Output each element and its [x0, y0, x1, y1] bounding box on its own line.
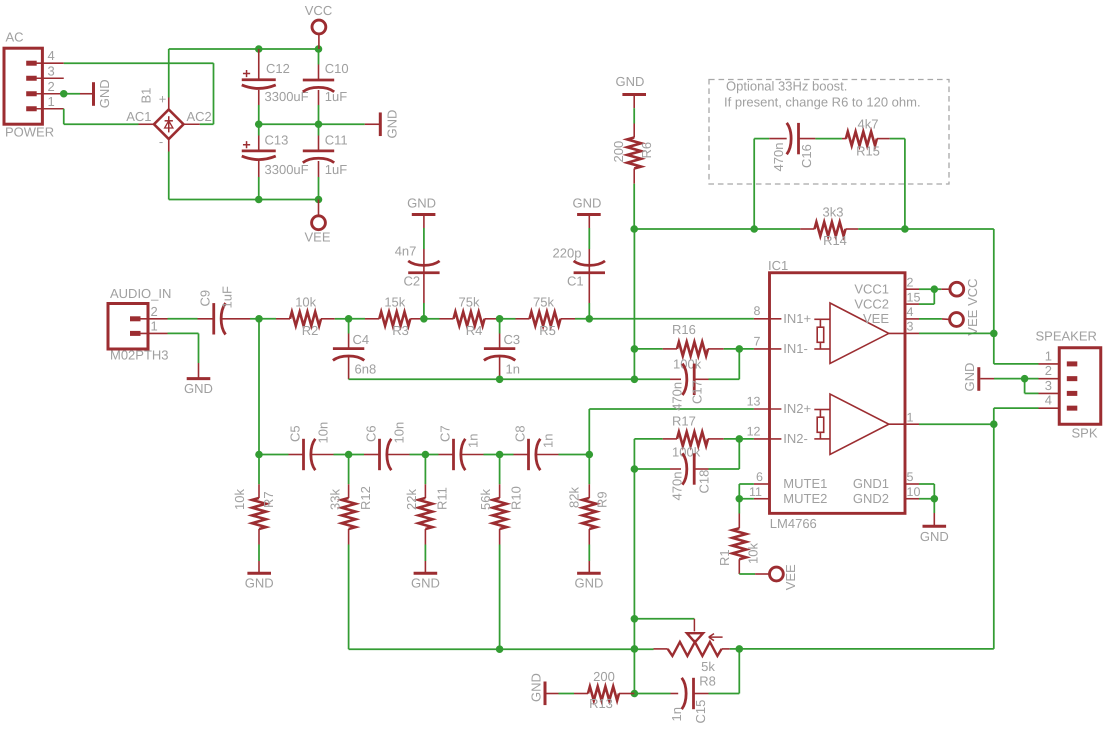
svg-text:4: 4 [1045, 393, 1052, 408]
node R14 rail left [630, 225, 638, 233]
svg-text:75k: 75k [459, 295, 480, 310]
potentiometer R8 5k [654, 619, 730, 689]
SPEAKER pin 4 [1039, 393, 1078, 409]
svg-text:3: 3 [1045, 378, 1052, 393]
resistor R14 3k3 [800, 205, 858, 249]
svg-text:3300uF: 3300uF [265, 89, 309, 104]
capacitor C1 220p [553, 246, 606, 319]
svg-text:R16: R16 [672, 322, 696, 337]
wire to speaker pin3 [1025, 379, 1039, 394]
svg-text:VCC1: VCC1 [854, 281, 889, 296]
SPEAKER pin 3 [1039, 378, 1078, 394]
mid rail wire and dots [255, 120, 365, 128]
svg-text:GND: GND [184, 381, 213, 396]
wire input junction down [258, 319, 260, 455]
svg-text:C11: C11 [325, 132, 348, 147]
ground above C2 [407, 196, 436, 249]
svg-text:1uF: 1uF [220, 286, 235, 308]
svg-text:75k: 75k [533, 295, 554, 310]
svg-text:IC1: IC1 [768, 258, 788, 273]
svg-text:1uF: 1uF [325, 162, 347, 177]
svg-text:VCC: VCC [305, 3, 332, 18]
svg-text:12: 12 [747, 424, 761, 438]
supply symbol VCC right [941, 278, 980, 305]
wire mute pins [736, 484, 754, 514]
svg-text:5k: 5k [701, 659, 715, 674]
dashed note box [709, 80, 949, 185]
resistor R4 75k [424, 295, 500, 339]
svg-text:R9: R9 [595, 491, 610, 508]
svg-text:VCC: VCC [965, 278, 980, 305]
svg-text:R10: R10 [509, 486, 524, 510]
wire C17 left lead [634, 378, 670, 380]
resistor R13 200 [559, 669, 635, 711]
svg-text:82k: 82k [567, 487, 582, 508]
wire to IN1+ [575, 318, 754, 320]
svg-text:R13: R13 [589, 696, 613, 711]
svg-text:C12: C12 [266, 61, 290, 76]
svg-text:GND: GND [407, 196, 436, 211]
ground below IC1 [920, 513, 949, 544]
wire C16 left leg [754, 139, 769, 229]
capacitor C10 1uF [303, 49, 349, 124]
svg-text:22k: 22k [404, 489, 419, 510]
svg-text:GND: GND [573, 196, 602, 211]
ground below R11 [411, 561, 440, 591]
svg-text:1uF: 1uF [325, 89, 347, 104]
svg-text:4n7: 4n7 [395, 243, 417, 258]
node R17 row right [736, 435, 744, 443]
svg-text:1: 1 [1045, 348, 1052, 363]
resistor R2 10k [259, 295, 349, 339]
svg-text:R15: R15 [856, 144, 880, 159]
resistor R10 56k [478, 455, 524, 545]
svg-text:1n: 1n [541, 434, 556, 448]
node op1 output [990, 330, 998, 338]
resistor R15 4k7 [842, 117, 905, 159]
svg-text:C18: C18 [696, 470, 711, 494]
svg-text:GND: GND [97, 79, 112, 108]
connector SPEAKER [1036, 328, 1101, 440]
node R16 row left [631, 345, 639, 353]
POWER pin 2 [26, 79, 64, 94]
svg-text:GND: GND [385, 110, 400, 139]
resistor R5 75k [500, 295, 575, 339]
svg-text:470n: 470n [771, 143, 786, 172]
svg-text:4k7: 4k7 [858, 117, 879, 132]
POWER pin 1 [26, 94, 64, 109]
svg-text:GND2: GND2 [853, 491, 889, 506]
svg-text:GND1: GND1 [853, 476, 889, 491]
svg-text:AUDIO_IN: AUDIO_IN [110, 286, 171, 301]
svg-text:R3: R3 [392, 323, 409, 338]
capacitor C4 6n8 [333, 319, 376, 380]
svg-text:15: 15 [907, 290, 921, 304]
node input junction [255, 315, 263, 323]
IC1 pin 8 IN1+ [754, 304, 812, 326]
svg-text:10n: 10n [316, 422, 331, 444]
svg-text:C8: C8 [513, 425, 528, 442]
svg-text:R7: R7 [261, 491, 276, 508]
wire R17 left leg down [633, 439, 635, 469]
svg-text:AC: AC [6, 30, 24, 45]
wire R14 rail [634, 228, 994, 230]
svg-text:R11: R11 [435, 487, 450, 510]
capacitor C2 4n7 [395, 243, 440, 318]
node C4 junction [345, 315, 353, 323]
node VEE rail junctions [255, 196, 322, 204]
supply symbol VEE [304, 200, 330, 245]
wire POWER pin1 to AC1 [64, 109, 139, 125]
svg-text:100k: 100k [672, 445, 701, 460]
svg-text:C17: C17 [689, 380, 704, 404]
svg-text:POWER: POWER [5, 125, 54, 140]
svg-text:C10: C10 [325, 61, 349, 76]
svg-text:6n8: 6n8 [355, 362, 377, 377]
IC1 pin 11 MUTE2 [749, 485, 827, 506]
svg-text:3k3: 3k3 [823, 205, 844, 220]
wire rail R10 to pot [500, 648, 654, 650]
node R16 row right [736, 345, 744, 353]
wire op1 output to speaker pin1 [994, 333, 1039, 364]
resistor R12 33k [328, 455, 374, 545]
svg-text:100k: 100k [673, 356, 702, 371]
capacitor C7 1n [425, 425, 499, 470]
capacitor C3 1n [484, 319, 520, 380]
svg-text:C5: C5 [288, 425, 303, 442]
svg-text:IN1+: IN1+ [783, 311, 811, 326]
IC1 pin 5 GND1 [853, 470, 919, 491]
IC1 pin 1 OUT2 [905, 410, 919, 424]
capacitor C5 10n [259, 422, 349, 470]
svg-text:B1: B1 [139, 88, 154, 104]
wire R1 to VEE [739, 573, 755, 575]
wire 6n8 feedback rail [349, 376, 635, 384]
svg-text:R5: R5 [539, 323, 556, 338]
connector AUDIO_IN [108, 286, 171, 363]
wire C8 junction to IN2+ [589, 409, 754, 455]
svg-text:R1: R1 [717, 549, 732, 566]
svg-text:470n: 470n [669, 382, 684, 411]
svg-text:C13: C13 [265, 132, 289, 147]
svg-text:VEE: VEE [965, 309, 980, 335]
resistor R17 100k [634, 414, 754, 460]
svg-text:MUTE2: MUTE2 [783, 491, 827, 506]
wire R10 to bottom rail [496, 545, 504, 654]
svg-text:AC2: AC2 [187, 109, 212, 124]
svg-text:6: 6 [756, 470, 763, 484]
wire C15 up to pot right [738, 649, 740, 694]
resistor R9 82k [567, 455, 610, 562]
svg-text:R4: R4 [466, 323, 483, 338]
svg-text:C2: C2 [404, 273, 421, 288]
node C1 junction [586, 315, 594, 323]
wire wiper rail [631, 615, 695, 623]
capacitor C6 10n [349, 422, 426, 470]
ground above R6 [615, 74, 646, 124]
svg-text:4: 4 [907, 305, 914, 319]
capacitor C8 1n [500, 425, 590, 470]
svg-text:GND: GND [529, 673, 544, 702]
node C5 junctions [255, 451, 352, 459]
wire pin 4 to VEE [919, 318, 942, 320]
svg-text:33k: 33k [328, 489, 343, 510]
node C7 junction [496, 451, 504, 459]
svg-text:56k: 56k [478, 489, 493, 510]
svg-text:7: 7 [754, 334, 761, 348]
svg-text:10k: 10k [745, 543, 760, 564]
svg-text:3: 3 [48, 63, 55, 78]
svg-text:200: 200 [593, 669, 615, 684]
capacitor C13 3300uF [242, 124, 309, 199]
resistor R6 200 [611, 124, 654, 184]
wire gnd to speaker pin2 [994, 375, 1039, 383]
node C8 junction [586, 451, 594, 459]
wire pins 5/10 to ground [919, 484, 938, 513]
svg-text:GND: GND [245, 576, 274, 591]
svg-text:R2: R2 [302, 323, 319, 338]
capacitor C18 470n [634, 439, 739, 501]
IC1 pin 12 IN2- [747, 424, 808, 446]
ground at POWER pin2 [60, 79, 112, 108]
IC1 pin 6 MUTE1 [754, 470, 827, 491]
wire R12 to bottom rail [349, 545, 500, 650]
svg-text:220p: 220p [553, 246, 582, 261]
svg-text:1: 1 [907, 410, 914, 424]
svg-text:R14: R14 [823, 233, 847, 248]
SPEAKER pin 1 [1039, 348, 1078, 364]
svg-text:C3: C3 [504, 332, 521, 347]
connector POWER (AC input) [4, 30, 54, 140]
node C2 junction [420, 315, 428, 323]
node C6 junction [422, 451, 430, 459]
svg-text:13: 13 [747, 394, 761, 408]
IC1 pin 3 OUT1 [905, 320, 919, 334]
svg-text:GND: GND [920, 529, 949, 544]
AUDIO_IN pin 1 [130, 318, 168, 333]
supply symbol VCC [305, 3, 332, 49]
resistor R1 10k [717, 514, 761, 575]
svg-text:VCC2: VCC2 [854, 296, 889, 311]
wire vertical IN1- column [633, 229, 635, 379]
svg-text:Optional 33Hz boost.: Optional 33Hz boost. [726, 79, 847, 94]
wire R15 right leg [904, 139, 906, 229]
node VCC rail junctions [255, 45, 322, 53]
capacitor C16 470n [769, 123, 842, 172]
AUDIO_IN pin 2 [130, 304, 168, 319]
svg-text:C4: C4 [353, 332, 370, 347]
svg-text:R8: R8 [699, 673, 716, 688]
capacitor C17 470n [631, 349, 740, 411]
svg-text:C7: C7 [438, 425, 453, 442]
svg-text:10: 10 [907, 485, 921, 499]
IC1 pin 13 IN2+ [747, 394, 812, 416]
svg-text:AC1: AC1 [126, 109, 151, 124]
wire pin 3 to output node [919, 332, 994, 334]
svg-text:LM4766: LM4766 [770, 516, 817, 531]
note text line2 [724, 95, 921, 110]
svg-text:8: 8 [754, 304, 761, 318]
capacitor C9 1uF [168, 286, 260, 334]
svg-text:5: 5 [907, 470, 914, 484]
ground at R13 [529, 673, 559, 705]
wire B1 minus to VEE rail [169, 152, 319, 200]
svg-text:10k: 10k [232, 489, 247, 510]
IC1 pin 2 VCC1 [854, 275, 919, 296]
capacitor C12 3300uF [242, 49, 309, 124]
svg-text:If present, change R6 to 120 o: If present, change R6 to 120 ohm. [724, 95, 921, 110]
resistor R7 10k [232, 455, 276, 562]
svg-text:1: 1 [151, 318, 158, 333]
svg-text:C1: C1 [567, 273, 584, 288]
ground below AUDIO_IN [168, 333, 213, 395]
resistor R3 15k [349, 295, 424, 339]
ground at mid rail [365, 110, 400, 139]
svg-text:IN2+: IN2+ [783, 401, 811, 416]
POWER pin 3 [26, 63, 64, 78]
svg-text:C9: C9 [198, 290, 213, 307]
svg-text:2: 2 [48, 79, 55, 94]
resistor R11 22k [404, 455, 450, 562]
svg-text:M02PTH3: M02PTH3 [110, 348, 169, 363]
wire B1 plus to VCC rail [169, 49, 319, 98]
svg-text:+: + [159, 91, 167, 106]
svg-text:GND: GND [615, 74, 644, 89]
svg-text:GND: GND [411, 576, 440, 591]
SPEAKER pin 2 [1039, 363, 1078, 379]
POWER pin 4 [26, 48, 64, 63]
wire pins 2/15 to VCC [919, 285, 941, 304]
wire bottom rail segment [631, 619, 639, 698]
node pot right [730, 645, 994, 653]
node rail dots [750, 225, 908, 233]
svg-text:IN2-: IN2- [783, 431, 808, 446]
IC1 pin 7 IN1- [754, 334, 808, 356]
svg-text:10n: 10n [392, 422, 407, 444]
resistor R16 100k [634, 322, 754, 371]
capacitor C15 1n [634, 678, 739, 724]
svg-text:C15: C15 [693, 700, 708, 724]
svg-text:1: 1 [48, 94, 55, 109]
ground at speaker [962, 363, 994, 392]
node C3 junction [496, 315, 504, 323]
svg-text:3: 3 [907, 320, 914, 334]
svg-text:R12: R12 [358, 486, 373, 510]
supply symbol VEE right [942, 309, 980, 335]
svg-text:1n: 1n [466, 434, 481, 448]
svg-text:GND: GND [962, 363, 977, 392]
svg-text:VEE: VEE [783, 564, 798, 590]
wire POWER pin4 to AC2 [64, 63, 214, 124]
wire R6 down to R14 rail [633, 184, 635, 229]
node C18 row left [631, 465, 639, 473]
svg-text:MUTE1: MUTE1 [783, 476, 827, 491]
svg-text:IN1-: IN1- [783, 341, 808, 356]
wire op2 output to speaker pin4 [919, 408, 1039, 428]
svg-text:R17: R17 [672, 414, 696, 429]
bridge rectifier B1 [126, 88, 212, 152]
op-amp U1B triangle [814, 394, 905, 455]
svg-text:11: 11 [749, 485, 762, 499]
svg-text:2: 2 [907, 275, 914, 289]
svg-text:C6: C6 [364, 425, 379, 442]
wire R14 rail down to op1 output [993, 229, 995, 333]
IC1 pin 10 GND2 [853, 485, 921, 506]
svg-text:4: 4 [48, 48, 55, 63]
svg-text:3300uF: 3300uF [265, 162, 309, 177]
svg-text:470n: 470n [669, 472, 684, 501]
svg-text:-: - [159, 134, 163, 149]
svg-text:C16: C16 [799, 144, 814, 168]
ground below R9 [574, 561, 603, 591]
svg-text:15k: 15k [384, 295, 405, 310]
wire op2 output down to feedback [993, 424, 995, 649]
note text line1 [726, 79, 847, 94]
supply symbol VEE below R1 [755, 564, 798, 590]
ground above C1 [573, 196, 602, 249]
svg-text:200: 200 [611, 141, 626, 163]
IC1 pin 4 VEE [863, 305, 919, 326]
ground below R7 [245, 561, 274, 591]
op-amp U1A triangle [814, 303, 905, 364]
capacitor C11 1uF [303, 124, 348, 199]
svg-text:SPK: SPK [1072, 425, 1098, 440]
svg-text:1n: 1n [506, 362, 520, 377]
svg-text:GND: GND [574, 576, 603, 591]
IC1 pin 15 VCC2 [854, 290, 920, 311]
wire C18 column down to pot [633, 469, 635, 619]
svg-text:R6: R6 [639, 142, 654, 159]
svg-text:VEE: VEE [863, 311, 889, 326]
svg-text:10k: 10k [295, 295, 316, 310]
svg-text:VEE: VEE [304, 230, 330, 245]
svg-text:2: 2 [151, 304, 158, 319]
svg-text:2: 2 [1045, 363, 1052, 378]
svg-text:1n: 1n [669, 707, 684, 721]
svg-text:SPEAKER: SPEAKER [1036, 328, 1097, 343]
op-amp IC1 box [768, 258, 905, 531]
